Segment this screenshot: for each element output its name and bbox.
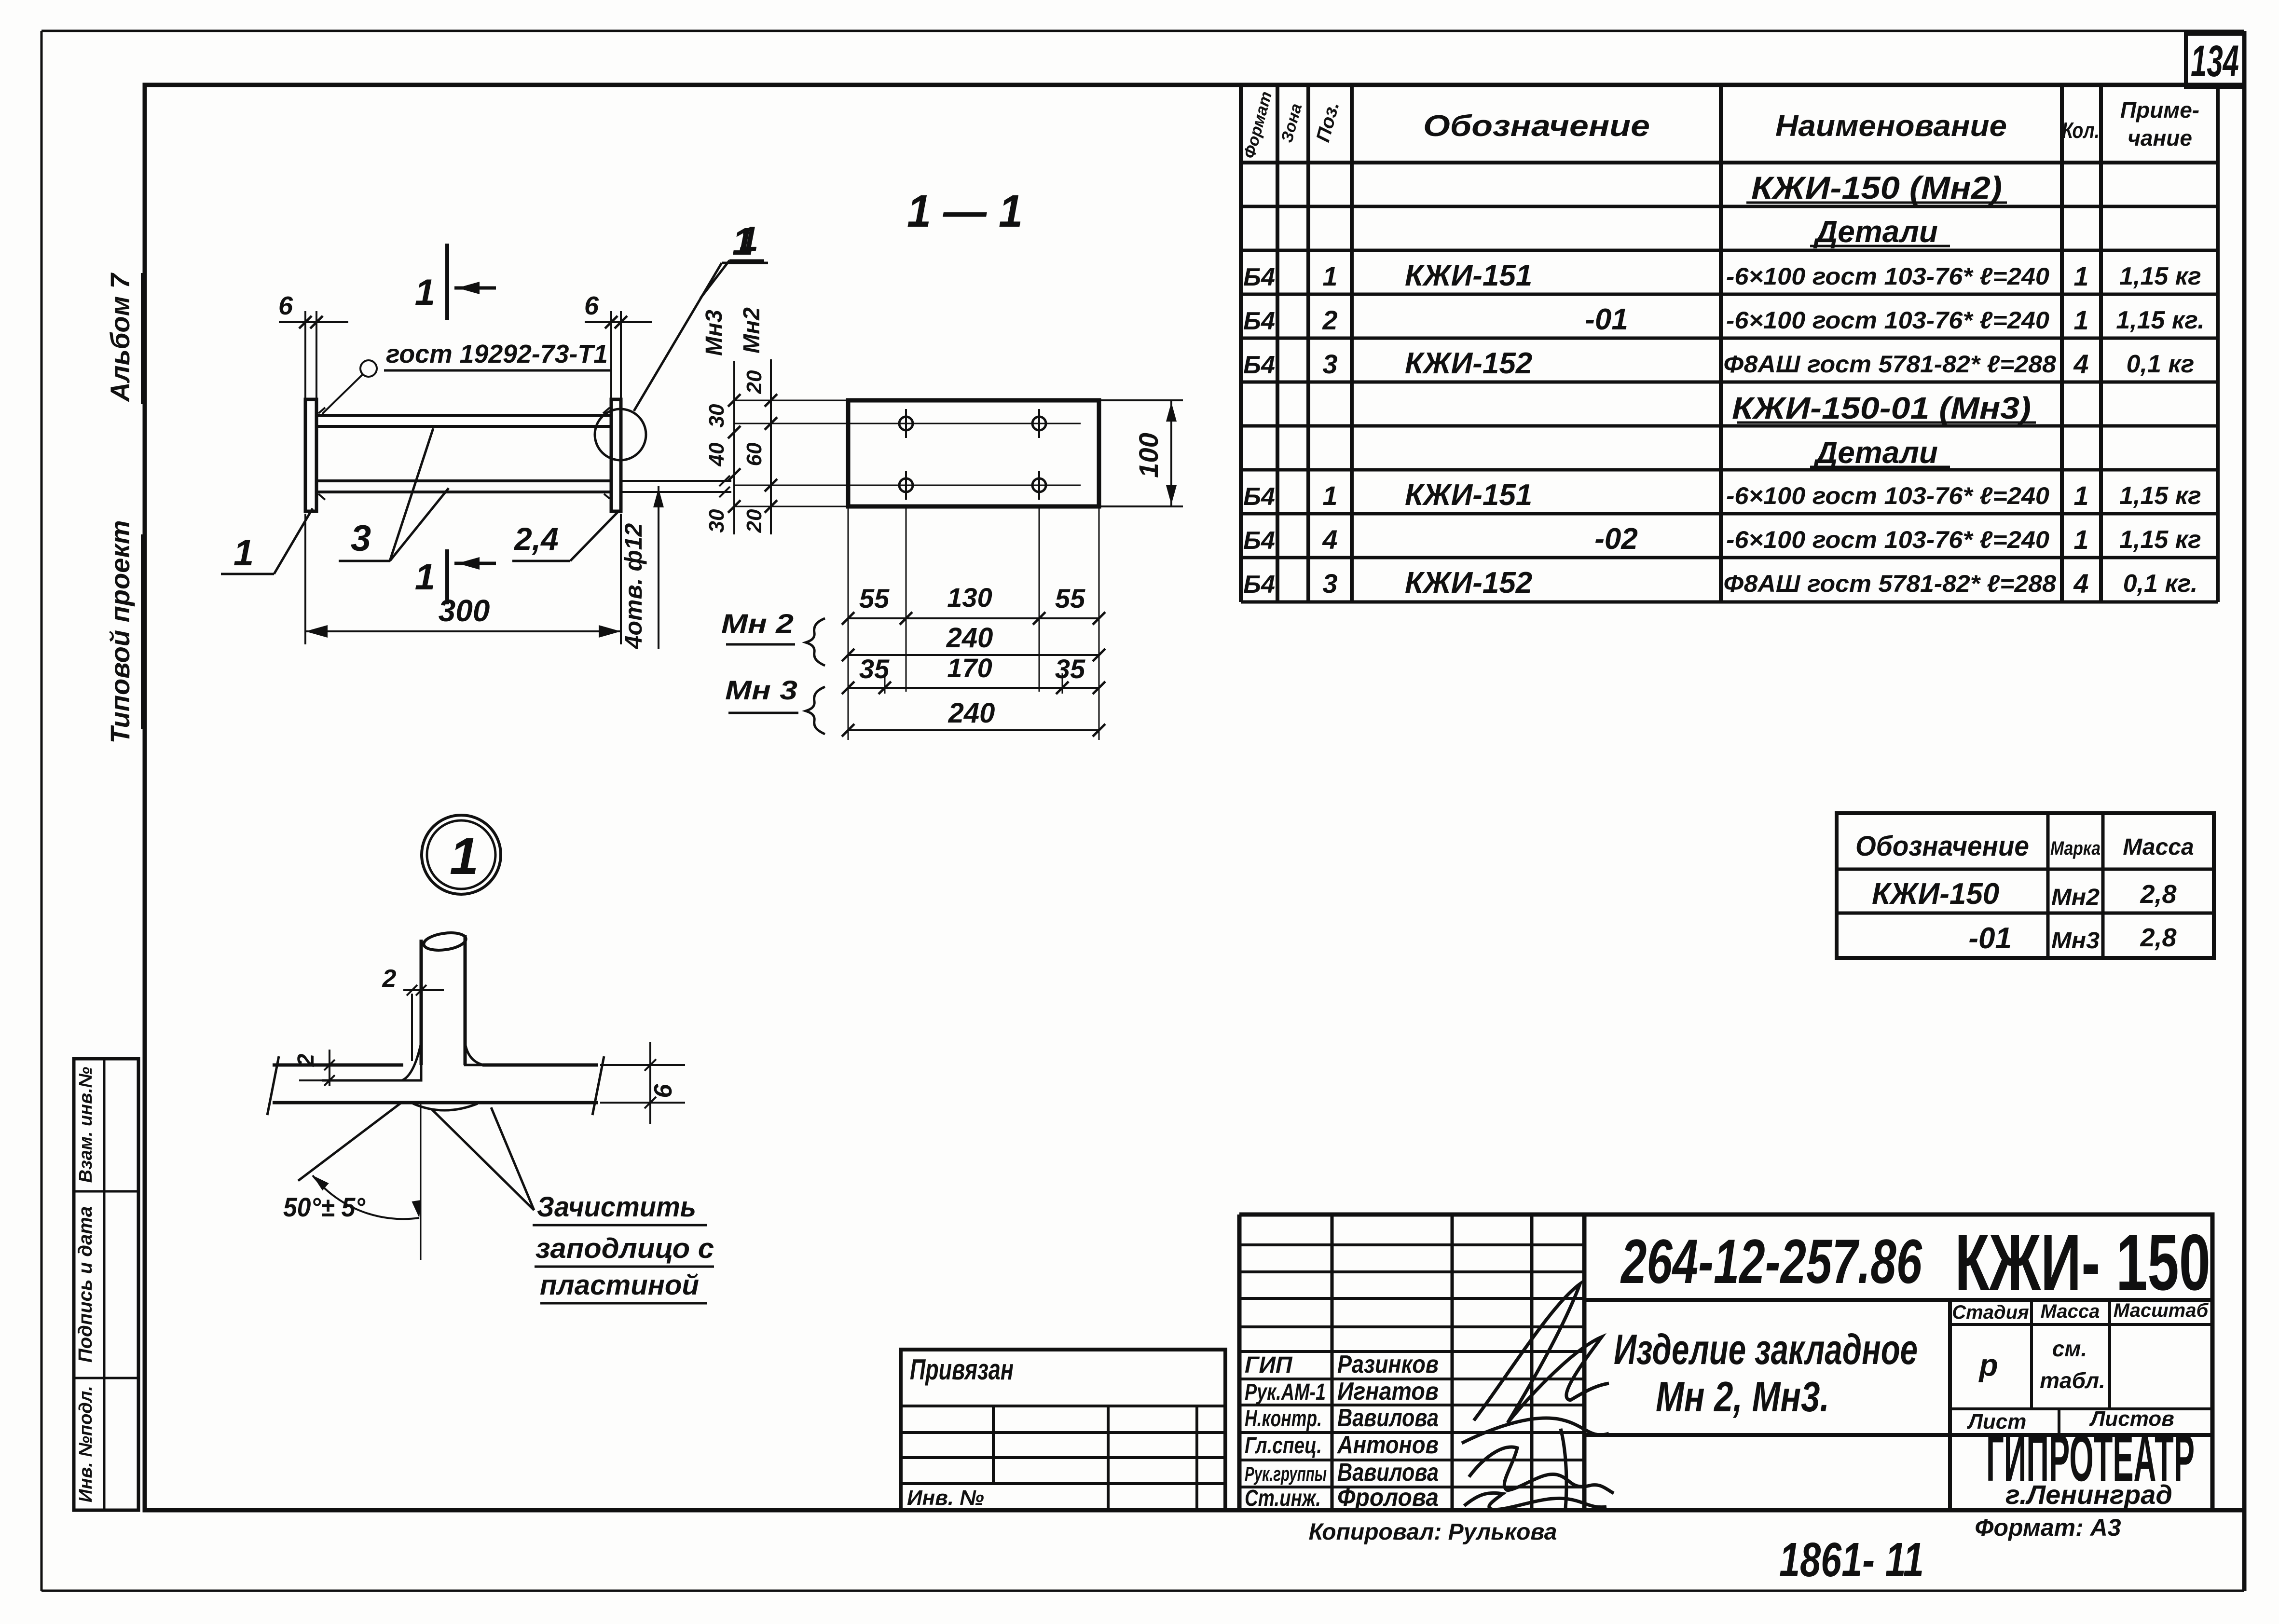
svg-text:2: 2 <box>293 1053 319 1067</box>
rod centerline below plate <box>420 1104 422 1260</box>
svg-text:3: 3 <box>351 518 371 559</box>
dim row 35 170 35 <box>848 687 1099 689</box>
detail circle on right joint <box>595 409 646 460</box>
svg-text:-6×100 гост 103-76* ℓ=240: -6×100 гост 103-76* ℓ=240 <box>1726 307 2049 334</box>
dim 2 top <box>411 994 413 1061</box>
svg-text:Гл.спец.: Гл.спец. <box>1245 1433 1322 1459</box>
svg-text:20: 20 <box>742 370 766 394</box>
section plate <box>848 400 1099 506</box>
section holes <box>899 417 913 430</box>
dim row 240 Мн3 <box>848 729 1099 731</box>
svg-text:55: 55 <box>1055 583 1085 614</box>
svg-text:Формат: А3: Формат: А3 <box>1975 1514 2121 1541</box>
svg-text:1: 1 <box>233 532 254 573</box>
svg-text:КЖИ-152: КЖИ-152 <box>1405 566 1532 600</box>
weld fillets <box>402 1043 421 1080</box>
svg-text:Антонов: Антонов <box>1336 1431 1439 1459</box>
svg-text:см.: см. <box>2052 1336 2087 1361</box>
svg-text:1: 1 <box>450 827 479 885</box>
svg-text:Стадия: Стадия <box>1952 1302 2029 1323</box>
page number box 134 <box>2186 34 2244 87</box>
svg-text:4: 4 <box>2073 568 2088 599</box>
svg-text:0,1 кг: 0,1 кг <box>2127 350 2195 378</box>
svg-text:20: 20 <box>742 509 766 533</box>
signatures <box>1474 1284 1609 1423</box>
svg-text:4: 4 <box>2073 349 2088 379</box>
svg-text:Альбом 7: Альбом 7 <box>105 272 135 402</box>
svg-text:табл.: табл. <box>2040 1368 2105 1393</box>
svg-text:Обозначение: Обозначение <box>1423 109 1650 143</box>
svg-text:3: 3 <box>1322 568 1337 599</box>
sheet outer border <box>41 30 2244 32</box>
svg-text:Подпись и дата: Подпись и дата <box>75 1206 96 1363</box>
svg-text:30: 30 <box>705 404 728 427</box>
svg-text:Рук.АМ-1: Рук.АМ-1 <box>1245 1379 1326 1405</box>
svg-text:Инв. №подл.: Инв. №подл. <box>76 1386 96 1502</box>
title block top edge <box>1239 1213 2212 1217</box>
svg-text:6: 6 <box>278 291 293 320</box>
svg-text:пластиной: пластиной <box>540 1269 699 1301</box>
spec table grid <box>1239 85 1243 602</box>
svg-text:-01: -01 <box>1968 922 2012 955</box>
section mark 1 top <box>445 244 449 320</box>
extensions below plate <box>906 506 907 692</box>
svg-text:-01: -01 <box>1585 303 1628 336</box>
svg-text:1: 1 <box>739 220 758 259</box>
dim line Мн2 left <box>770 359 772 534</box>
svg-text:Мн2: Мн2 <box>739 307 765 354</box>
dim 4 отв ф12 <box>622 480 731 482</box>
svg-text:КЖИ-151: КЖИ-151 <box>1405 259 1532 292</box>
svg-text:1: 1 <box>2073 305 2088 335</box>
svg-text:Мн2: Мн2 <box>2051 885 2100 910</box>
svg-text:Рук.группы: Рук.группы <box>1245 1462 1327 1485</box>
svg-text:300: 300 <box>439 593 490 628</box>
svg-text:3: 3 <box>1322 349 1337 379</box>
svg-text:р: р <box>1978 1348 1998 1382</box>
svg-text:Мн3: Мн3 <box>701 310 727 356</box>
svg-text:Мн 3: Мн 3 <box>725 675 797 705</box>
svg-text:Мн3: Мн3 <box>2051 928 2100 954</box>
svg-text:Марка: Марка <box>2050 838 2101 859</box>
svg-text:1861- 11: 1861- 11 <box>1779 1533 1924 1587</box>
margin stamp box <box>74 1059 138 1510</box>
svg-text:заподлицо с: заподлицо с <box>535 1233 714 1264</box>
side view right plate <box>611 399 621 511</box>
weld detail plate <box>273 1064 403 1067</box>
svg-text:240: 240 <box>946 622 993 654</box>
svg-text:2: 2 <box>382 965 397 993</box>
svg-text:1 — 1: 1 — 1 <box>907 186 1023 237</box>
svg-text:гост 19292-73-Т1: гост 19292-73-Т1 <box>386 340 608 368</box>
стадия масса масштаб <box>1950 1323 2212 1326</box>
mass table grid <box>1837 813 2214 958</box>
section mark 1 bottom <box>445 549 449 604</box>
svg-text:1,15 кг: 1,15 кг <box>2119 262 2201 290</box>
svg-text:Зона: Зона <box>1277 102 1305 145</box>
svg-text:2,8: 2,8 <box>2140 880 2176 909</box>
svg-text:Инв. №: Инв. № <box>907 1486 984 1510</box>
svg-text:Разинков: Разинков <box>1337 1351 1439 1378</box>
svg-text:1: 1 <box>415 272 435 313</box>
svg-text:КЖИ-150-01 (Мн3): КЖИ-150-01 (Мн3) <box>1732 391 2031 425</box>
detail circle 1 <box>422 815 501 894</box>
sheet right border <box>2242 31 2247 1591</box>
svg-text:Б4: Б4 <box>1243 351 1275 379</box>
svg-text:Φ8АШ гост 5781-82* ℓ=288: Φ8АШ гост 5781-82* ℓ=288 <box>1723 351 2056 378</box>
dim 300 <box>304 514 306 644</box>
dim line Мн3 left <box>733 361 735 534</box>
svg-text:Б4: Б4 <box>1243 483 1275 511</box>
weld marks at rod ends <box>318 408 325 413</box>
svg-text:-6×100 гост 103-76* ℓ=240: -6×100 гост 103-76* ℓ=240 <box>1726 526 2049 553</box>
svg-text:Мн 2: Мн 2 <box>721 608 794 639</box>
dim 2 left <box>329 1050 330 1086</box>
svg-text:50°± 5°: 50°± 5° <box>283 1192 366 1222</box>
svg-text:-02: -02 <box>1594 522 1638 556</box>
svg-text:60: 60 <box>742 442 766 466</box>
svg-text:1: 1 <box>2073 261 2088 291</box>
staff grid <box>1237 1215 1242 1510</box>
svg-text:35: 35 <box>859 654 890 684</box>
svg-text:240: 240 <box>948 697 995 729</box>
svg-text:г.Ленинград: г.Ленинград <box>2005 1479 2172 1510</box>
svg-text:1: 1 <box>2073 480 2088 511</box>
svg-text:Приме-: Приме- <box>2120 97 2199 123</box>
svg-text:Поз.: Поз. <box>1312 99 1343 144</box>
svg-text:Б4: Б4 <box>1243 263 1275 291</box>
svg-text:6: 6 <box>584 291 599 320</box>
svg-text:Формат: Формат <box>1240 90 1276 161</box>
svg-text:Зачистить: Зачистить <box>537 1191 696 1223</box>
svg-text:1,15 кг: 1,15 кг <box>2119 482 2201 510</box>
svg-text:Б4: Б4 <box>1243 527 1275 555</box>
dim row 240 Мн2 <box>848 654 1099 656</box>
svg-text:Вавилова: Вавилова <box>1337 1404 1439 1432</box>
svg-text:4отв. ф12: 4отв. ф12 <box>620 523 647 649</box>
svg-text:Φ8АШ гост 5781-82* ℓ=288: Φ8АШ гост 5781-82* ℓ=288 <box>1723 570 2056 597</box>
svg-text:Кол.: Кол. <box>2062 118 2100 143</box>
dim 6 right <box>600 1064 685 1066</box>
привязан table <box>901 1350 1225 1510</box>
svg-text:Мн 2, Мн3.: Мн 2, Мн3. <box>1656 1373 1829 1420</box>
svg-text:Н.контр.: Н.контр. <box>1245 1406 1322 1432</box>
angle 50±5 <box>298 1103 401 1181</box>
anchor rod bottom <box>316 479 611 482</box>
svg-text:Б4: Б4 <box>1243 571 1275 599</box>
svg-text:6: 6 <box>649 1083 677 1098</box>
dim 100 right <box>1101 399 1183 401</box>
svg-text:35: 35 <box>1055 654 1085 684</box>
svg-text:КЖИ- 150: КЖИ- 150 <box>1955 1218 2210 1307</box>
svg-text:чание: чание <box>2128 125 2192 150</box>
svg-text:Копировал: Рулькова: Копировал: Рулькова <box>1309 1519 1557 1545</box>
svg-text:134: 134 <box>2191 37 2239 86</box>
svg-text:Масштаб: Масштаб <box>2114 1300 2209 1321</box>
svg-text:-6×100 гост 103-76* ℓ=240: -6×100 гост 103-76* ℓ=240 <box>1726 263 2049 290</box>
svg-text:КЖИ-151: КЖИ-151 <box>1405 478 1532 512</box>
svg-text:Масса: Масса <box>2041 1301 2100 1322</box>
svg-text:Наименование: Наименование <box>1775 109 2007 143</box>
svg-text:-6×100 гост 103-76* ℓ=240: -6×100 гост 103-76* ℓ=240 <box>1726 482 2049 509</box>
svg-text:40: 40 <box>705 442 728 466</box>
svg-text:Б4: Б4 <box>1243 307 1275 335</box>
svg-text:Игнатов: Игнатов <box>1337 1378 1439 1406</box>
svg-text:1: 1 <box>415 557 435 598</box>
dim 6 left <box>304 311 306 399</box>
svg-text:Вавилова: Вавилова <box>1337 1459 1439 1487</box>
svg-text:КЖИ-150 (Мн2): КЖИ-150 (Мн2) <box>1751 170 2002 205</box>
svg-text:1: 1 <box>2073 524 2088 555</box>
svg-text:Фролова: Фролова <box>1337 1484 1439 1512</box>
side view left plate <box>305 399 316 511</box>
svg-text:Обозначение: Обозначение <box>1855 831 2029 862</box>
svg-text:264-12-257.86: 264-12-257.86 <box>1620 1226 1922 1296</box>
svg-text:30: 30 <box>705 509 728 532</box>
svg-text:2,8: 2,8 <box>2140 923 2176 952</box>
svg-text:Типовой проект: Типовой проект <box>105 520 135 743</box>
title block main box <box>1584 1215 2212 1510</box>
svg-text:Привязан: Привязан <box>910 1353 1014 1386</box>
svg-text:4: 4 <box>1322 524 1337 555</box>
svg-text:Масса: Масса <box>2123 834 2194 860</box>
dim 6 right <box>610 311 612 399</box>
svg-text:КЖИ-152: КЖИ-152 <box>1405 347 1532 380</box>
hole centerlines <box>734 423 1081 424</box>
svg-text:Взам. инв.№: Взам. инв.№ <box>76 1067 96 1183</box>
лист листов <box>1950 1407 2212 1410</box>
svg-text:0,1 кг.: 0,1 кг. <box>2123 570 2198 598</box>
weld detail rod <box>420 940 423 1065</box>
svg-text:170: 170 <box>947 653 992 683</box>
svg-text:100: 100 <box>1133 433 1164 478</box>
note leaders <box>432 1109 534 1210</box>
svg-text:55: 55 <box>859 583 890 614</box>
svg-text:2: 2 <box>1322 305 1337 335</box>
svg-text:1: 1 <box>1322 261 1337 291</box>
svg-text:КЖИ-150: КЖИ-150 <box>1872 877 1999 911</box>
svg-text:2,4: 2,4 <box>513 521 559 557</box>
svg-text:Детали: Детали <box>1813 214 1938 249</box>
svg-text:Ст.инж.: Ст.инж. <box>1245 1486 1321 1511</box>
svg-text:1: 1 <box>1322 480 1337 511</box>
svg-text:Изделие закладное: Изделие закладное <box>1614 1325 1918 1373</box>
svg-text:1,15 кг: 1,15 кг <box>2119 526 2201 554</box>
svg-text:130: 130 <box>947 582 992 613</box>
svg-text:ГИП: ГИП <box>1245 1352 1293 1378</box>
anchor rod top <box>316 414 611 417</box>
plate break marks <box>267 1056 279 1115</box>
svg-text:Детали: Детали <box>1813 435 1938 470</box>
dim row 55 130 55 <box>848 617 1099 619</box>
svg-text:1,15 кг.: 1,15 кг. <box>2116 306 2205 334</box>
